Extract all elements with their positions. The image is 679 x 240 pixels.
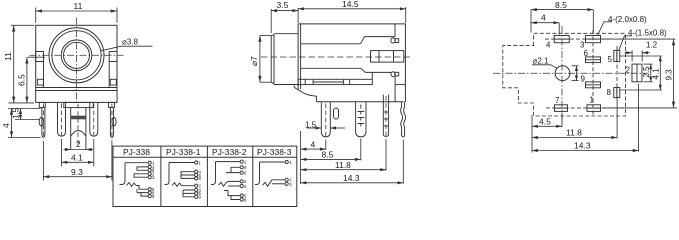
bore bottom bbox=[301, 67, 361, 69]
svg-text:4: 4 bbox=[311, 139, 316, 149]
pin5 centerline bbox=[111, 104, 113, 140]
pin5 bulge bbox=[112, 117, 116, 126]
barrel circle inner (3.8mm hole) bbox=[64, 42, 90, 68]
inner side wall left bbox=[43, 62, 45, 88]
inner side wall right bbox=[108, 62, 110, 88]
column line 3 bbox=[252, 146, 254, 206]
svg-text:9: 9 bbox=[581, 75, 586, 84]
dim 11.8 extension pads 5-8 bbox=[616, 99, 618, 139]
dim 2.5 line bbox=[650, 64, 652, 82]
side pin3 ridge ticks bbox=[384, 111, 388, 113]
dim 11 left extension top bbox=[11, 24, 34, 26]
pad 3 bbox=[586, 36, 601, 43]
label 4-(2.0x0.8) leader bbox=[598, 22, 613, 36]
center hole 2.1 bbox=[555, 66, 570, 81]
svg-text:1.2: 1.2 bbox=[646, 41, 658, 50]
switch box bbox=[371, 51, 404, 63]
svg-text:PJ-338-3: PJ-338-3 bbox=[257, 147, 292, 157]
svg-text:11: 11 bbox=[74, 1, 83, 11]
svg-text:PJ-338-1: PJ-338-1 bbox=[166, 147, 201, 157]
row centerline pads 7-1 bbox=[546, 107, 628, 109]
dim 3.5 extension left bbox=[270, 9, 272, 33]
pin3 contact bar bbox=[71, 116, 86, 120]
dim 4.5 extension pad7 bbox=[561, 113, 563, 128]
svg-text:2: 2 bbox=[626, 66, 631, 75]
svg-text:8.5: 8.5 bbox=[555, 0, 567, 10]
svg-text:4.5: 4.5 bbox=[539, 117, 551, 127]
svg-text:1: 1 bbox=[590, 96, 595, 105]
bottom rail bar bbox=[298, 79, 372, 84]
body front face bbox=[297, 24, 299, 91]
bottom-left lip bbox=[294, 84, 299, 86]
svg-text:11.8: 11.8 bbox=[335, 160, 351, 170]
barrel circle 3 bbox=[61, 40, 92, 71]
bore flare bottom bbox=[361, 68, 365, 72]
body top edge bbox=[298, 23, 405, 25]
svg-text:5: 5 bbox=[608, 55, 613, 64]
dim 8.5 line bbox=[531, 9, 593, 11]
axis centerline bbox=[261, 56, 411, 58]
svg-text:11: 11 bbox=[3, 52, 13, 61]
PCB LAYOUT VIEW bbox=[493, 0, 677, 152]
pin5 body bbox=[110, 107, 113, 137]
dim 14.3 extension bbox=[638, 84, 640, 152]
svg-text:6.5: 6.5 bbox=[17, 74, 27, 86]
dim 11 left line bbox=[13, 25, 15, 103]
cell 3 pin numbers bbox=[244, 159, 247, 202]
rail to flare connector bbox=[371, 72, 373, 79]
svg-text:9.3: 9.3 bbox=[665, 69, 674, 81]
pad 6 bbox=[586, 57, 601, 63]
pin3 center walls bbox=[70, 108, 72, 150]
dim 2.5 extensions bbox=[644, 63, 653, 65]
dim 1.5 side arrows bbox=[307, 127, 321, 129]
dim 8.5 extensions bbox=[530, 10, 532, 33]
bottom-left curve bbox=[294, 86, 317, 102]
dim 9.3 line bbox=[43, 176, 112, 178]
dim 4 left extension top bbox=[8, 108, 41, 110]
dim 4 left line bbox=[11, 109, 13, 138]
dim 3.5 extension right bbox=[297, 8, 299, 23]
svg-text:14.3: 14.3 bbox=[574, 141, 591, 151]
barrel bottom edge bbox=[274, 84, 298, 86]
side pin1 centerline bbox=[325, 104, 327, 140]
svg-text:2: 2 bbox=[76, 139, 81, 149]
dim 8.5 extension pin2 bbox=[360, 139, 362, 161]
dim 11 top extension left bbox=[35, 8, 37, 23]
lower hook bbox=[391, 72, 395, 77]
side pin1 U bbox=[321, 102, 330, 136]
dim 11.8 extension pin3 bbox=[385, 140, 387, 171]
dim 11 top line bbox=[36, 10, 117, 12]
dim 11 left extension bottom bbox=[9, 102, 35, 104]
common left extension bbox=[300, 131, 302, 184]
side pin4 wavy bbox=[401, 102, 403, 136]
lower horizontal line 1 bbox=[36, 87, 117, 89]
dim phi7 extension top bbox=[260, 34, 272, 36]
pad 8 bbox=[614, 88, 620, 98]
pad 4 bbox=[554, 36, 569, 43]
svg-text:7: 7 bbox=[555, 96, 560, 105]
pin1 bulge bbox=[39, 117, 43, 126]
svg-text:1.5: 1.5 bbox=[12, 107, 21, 119]
pad 7 bbox=[555, 105, 568, 112]
dim phi7 extension bottom bbox=[260, 81, 272, 83]
bottom right block bbox=[394, 77, 396, 102]
cell 3 schematic PJ-338-2 bbox=[211, 160, 243, 201]
column line 1 bbox=[160, 146, 162, 206]
label 4-(1.5x0.8) leader bbox=[619, 36, 632, 50]
right step bbox=[394, 24, 396, 37]
dim 4 bottom line bbox=[301, 148, 326, 150]
cell 2 pin numbers bbox=[199, 160, 202, 199]
dim 4 extensions bbox=[558, 23, 560, 35]
dim 14.3 line bbox=[532, 150, 639, 152]
cell 4 pin numbers bbox=[289, 160, 292, 187]
svg-text:4: 4 bbox=[546, 41, 551, 50]
svg-text:PJ-338-2: PJ-338-2 bbox=[212, 147, 247, 157]
dim 1.5 left extension bbox=[15, 119, 40, 121]
pad 5 bbox=[614, 50, 620, 61]
dim 1.5 left line bbox=[20, 109, 22, 120]
header separator bbox=[113, 156, 297, 158]
svg-text:6: 6 bbox=[584, 49, 589, 58]
dim 11.8 line bbox=[301, 169, 386, 171]
right corner square bbox=[110, 79, 116, 85]
side pin3 centerline bbox=[385, 96, 387, 140]
pin3 centerline bbox=[77, 104, 79, 147]
body bottom edge bbox=[317, 101, 404, 103]
dim 4 left extension bottom bbox=[8, 137, 41, 139]
dim 4.1 extensions bbox=[620, 55, 662, 57]
dim 8.5 line bbox=[301, 158, 361, 160]
svg-text:11.8: 11.8 bbox=[566, 128, 582, 138]
barrel circle outer bbox=[49, 28, 104, 83]
svg-text:9.3: 9.3 bbox=[71, 167, 83, 177]
cell 1 schematic PJ-338 bbox=[120, 161, 152, 198]
dim 4 bottom extension pin1 bbox=[325, 140, 327, 151]
dim 9.3 extensions bbox=[42, 141, 44, 181]
pad 2 bbox=[632, 64, 642, 82]
svg-text:4: 4 bbox=[1, 123, 11, 128]
svg-text:8: 8 bbox=[607, 88, 612, 97]
svg-text:14.5: 14.5 bbox=[342, 0, 359, 9]
dim 6.5 extension top bbox=[28, 56, 46, 58]
svg-text:3.5: 3.5 bbox=[277, 0, 289, 10]
pin4 centerline bbox=[93, 104, 95, 139]
horizontal centerline bbox=[493, 72, 648, 74]
pin2 centerline bbox=[61, 104, 63, 139]
center plate bbox=[64, 102, 93, 107]
svg-text:8.5: 8.5 bbox=[322, 150, 334, 160]
label dia 3.8 leader bbox=[100, 46, 152, 51]
dim 9.3 extensions bbox=[602, 38, 676, 40]
svg-text:4: 4 bbox=[541, 12, 546, 22]
svg-text:14.3: 14.3 bbox=[343, 173, 360, 183]
dim 2 line with outside arrows bbox=[64, 149, 94, 151]
pin1 stub bbox=[39, 102, 45, 107]
dim 11 top extension right bbox=[116, 8, 118, 23]
SIDE VIEW bbox=[249, 0, 411, 184]
pin4 U body bbox=[90, 102, 98, 136]
dim 14.3 line bbox=[301, 182, 404, 184]
cell 4 schematic PJ-338-3 bbox=[255, 160, 288, 186]
left mounting tab bbox=[36, 52, 44, 62]
svg-text:4.1: 4.1 bbox=[651, 68, 660, 80]
dim phi7 line bbox=[259, 35, 261, 82]
front body outline bbox=[36, 25, 117, 102]
pad 9 bbox=[586, 82, 601, 88]
right mounting tab bbox=[109, 52, 117, 62]
vertical centerline through hole bbox=[561, 26, 563, 121]
dim 11.8 line bbox=[532, 137, 617, 139]
dim 1.2 arrows outside bbox=[625, 52, 633, 54]
column centerline pads 3-6-9-1 bbox=[592, 30, 594, 115]
upper hook bbox=[391, 38, 395, 43]
column centerline pads 5-8 bbox=[616, 46, 618, 100]
svg-text:4-(1.5x0.8): 4-(1.5x0.8) bbox=[628, 29, 667, 38]
pin5 stub bbox=[109, 102, 115, 107]
left corner square bbox=[37, 79, 43, 85]
bore top bbox=[301, 43, 361, 45]
dim 4.1 line bbox=[659, 56, 661, 90]
FRONT VIEW bbox=[1, 1, 153, 181]
cell 1 pin numbers bbox=[152, 161, 155, 200]
dim 14.5 line bbox=[298, 8, 406, 10]
side pin2 U with T contacts bbox=[356, 102, 366, 136]
pin2 U body bbox=[58, 102, 66, 136]
pin1 body bbox=[42, 107, 45, 137]
vertical centerline bbox=[76, 18, 78, 104]
dim 6.5 line bbox=[26, 57, 28, 103]
dim 14.5 extension right bbox=[405, 7, 407, 23]
bore flare top bbox=[361, 37, 365, 44]
svg-text:⌀2.1: ⌀2.1 bbox=[533, 57, 549, 66]
row centerline pads 4-3 bbox=[545, 38, 612, 40]
dim 1.2 extensions bbox=[631, 50, 633, 61]
side pin3 thin bbox=[382, 95, 384, 136]
dim 4 line bbox=[531, 22, 559, 24]
column line 2 bbox=[206, 146, 208, 206]
dim 14.3 extension pin4 bbox=[402, 140, 404, 184]
svg-text:⌀7: ⌀7 bbox=[249, 56, 259, 66]
hole diameter ticks bbox=[572, 65, 579, 67]
dim 9.3 line bbox=[673, 39, 675, 108]
barrel top edge bbox=[274, 33, 298, 35]
pin1 centerline bbox=[42, 104, 44, 140]
pad 1 bbox=[587, 105, 601, 112]
dim 4.5 line bbox=[532, 125, 562, 127]
dim 4.1 extensions bbox=[61, 139, 63, 167]
barrel face bbox=[270, 36, 272, 82]
pin3 dome cutout bbox=[71, 131, 86, 137]
table border bbox=[113, 146, 297, 206]
VARIANT TABLE bbox=[113, 146, 297, 206]
svg-text:2.5: 2.5 bbox=[642, 66, 651, 78]
svg-text:PJ-338: PJ-338 bbox=[123, 147, 150, 157]
side tab next to pin1 bbox=[334, 108, 339, 119]
svg-text:4.1: 4.1 bbox=[71, 153, 83, 163]
lower horizontal line 2 bbox=[36, 90, 117, 92]
svg-text:4-(2.0x0.8): 4-(2.0x0.8) bbox=[608, 15, 647, 24]
dim 4.1 line bbox=[62, 161, 94, 163]
T bars bbox=[357, 111, 364, 113]
cell 2 schematic PJ-338-1 bbox=[165, 161, 198, 199]
body right edge bbox=[404, 24, 406, 102]
bottom left extension bbox=[531, 115, 533, 153]
svg-text:⌀3.8: ⌀3.8 bbox=[122, 38, 138, 47]
horizontal centerline bbox=[30, 54, 124, 56]
dia 2.1 leader bbox=[532, 65, 557, 69]
barrel circle 2 bbox=[52, 31, 101, 80]
dim 3.5 line bbox=[271, 10, 298, 12]
footprint outline dashed bbox=[503, 33, 626, 116]
